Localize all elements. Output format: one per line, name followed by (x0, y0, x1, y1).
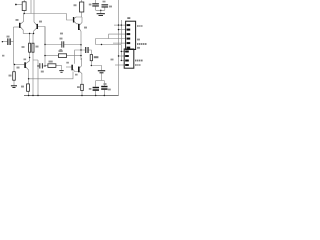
resistor R8 10k (90, 55, 92, 61)
label R10 (59, 50, 63, 52)
resistor R1 (22, 2, 26, 11)
wire bottom bus (24, 95, 119, 97)
capacitor C8 plates (93, 87, 99, 89)
wire T6 collector up (75, 50, 81, 64)
resistor R6 (80, 2, 84, 12)
node emitter join (29, 33, 30, 34)
wire pin5 row (113, 42, 126, 44)
wire C8 leads (95, 81, 97, 96)
label R3 (17, 67, 20, 69)
node T5 collector (29, 57, 30, 58)
terminal dot C1 input (2, 41, 3, 42)
wire C1 left lead (2, 41, 7, 43)
resistor R10 (81, 84, 84, 90)
label +13V (137, 25, 139, 27)
wire T4 emitter rail x81 (80, 29, 81, 60)
connector box lower (124, 49, 134, 68)
label C3 (60, 38, 63, 40)
wire T2 collector diag (34, 22, 37, 25)
label T6 (66, 62, 69, 64)
capacitor C2 plates (38, 63, 41, 68)
pin 8 (125, 55, 129, 57)
label 8R (111, 59, 114, 61)
pin 1 (127, 24, 131, 26)
label INPUT (135, 60, 143, 62)
wire node row y13.5 (24, 13, 66, 15)
wire T2 emitter (34, 28, 37, 33)
transistor T4 base bar (78, 24, 80, 30)
label C8 (89, 88, 92, 90)
wire pin3 row (109, 33, 126, 35)
label +13Vb (135, 64, 137, 66)
wire R7b right to ground (56, 66, 62, 70)
label C9b (108, 89, 111, 91)
label T2 (39, 21, 42, 23)
wire q4 row (115, 64, 124, 66)
capacitor C10 plates (98, 70, 105, 71)
capacitor C3 plates (60, 41, 63, 47)
label R2 (9, 75, 12, 77)
wire T1 base (14, 26, 20, 28)
terminal dot input R1 (15, 4, 17, 6)
ground G1 under R2 (11, 85, 17, 86)
wire C4 top lead (95, 0, 97, 3)
label T1 (16, 19, 19, 21)
pin 6 (127, 47, 131, 49)
label R6 (74, 4, 77, 6)
resistor R3 (29, 43, 31, 52)
transistor T5 base bar (24, 62, 26, 68)
wire T2 base to feedback rail (38, 27, 45, 45)
node C2 right (44, 65, 45, 66)
capacitor C9 plates (101, 86, 107, 88)
wire R3 top lead (29, 34, 31, 44)
wire T3 emitter to T4 base (74, 22, 78, 24)
wire R8 node to C10 (91, 66, 101, 71)
wire C4 bottom lead (95, 7, 97, 11)
resistor R7b horizontal (48, 64, 56, 68)
label R8mid (60, 33, 63, 35)
wire C2 leads (38, 65, 45, 67)
label T5 (24, 59, 27, 61)
wire R6 bottom node y17 (76, 12, 82, 17)
capacitor C4 plates (92, 3, 99, 4)
pin 7 (125, 51, 129, 53)
node C2 left (37, 65, 38, 66)
wire pin2 row (119, 29, 126, 31)
node bus dots (28, 95, 29, 96)
wire R1 left lead (16, 4, 22, 6)
wire rail x31 (30, 0, 32, 14)
wire T7 emitter to R10 (80, 72, 82, 85)
node T4 emitter y44 (80, 44, 81, 45)
capacitor C1 plates (7, 38, 8, 45)
wire cap junction row y80.5 (96, 80, 105, 82)
transistor T3 base bar (73, 17, 74, 23)
label 8V (137, 39, 140, 41)
wire C9 leads (103, 81, 105, 96)
label R4b (22, 46, 25, 48)
wire jog x108.5 (108, 34, 110, 38)
label C1 (7, 36, 10, 38)
label C5 (103, 1, 106, 3)
node T4 emitter y55.6 (80, 55, 81, 56)
node rail x45 y55.6 (44, 55, 45, 56)
wire output row y38 (96, 39, 126, 45)
wire R7b left lead (45, 65, 48, 67)
node T5 base (14, 64, 15, 65)
wire T6 emitter to T7 (73, 69, 78, 71)
wire T5 collector (26, 58, 30, 64)
wire C5 bottom lead (104, 8, 106, 11)
wire R7 leads y55.6 (45, 55, 81, 57)
transistor T2 base bar (37, 24, 39, 29)
wire top lead R1 (23, 0, 25, 2)
label edge-left (2, 55, 4, 57)
node T5 emitter tap (28, 78, 29, 79)
wire R3 bottom lead (29, 52, 31, 57)
wire C1 right lead (11, 41, 14, 43)
wire R4 top lead (32, 34, 34, 44)
wire T5 emitter (26, 67, 29, 84)
pin 2 (127, 29, 131, 31)
wire rail x121.3 upper (120, 20, 122, 44)
capacitor C7 plates (85, 47, 86, 53)
wire T1 emitter (20, 27, 23, 34)
pin 3 (127, 33, 131, 35)
connector J1 box upper (124, 21, 135, 68)
resistor R4 (32, 43, 34, 52)
wire R6 top lead (81, 0, 83, 2)
wire R2 bottom lead (13, 80, 15, 85)
transistor T7 base bar (78, 67, 80, 73)
node R8 bottom (91, 65, 92, 66)
wire T6 base stub (66, 66, 71, 68)
wire T1 collector (20, 14, 23, 25)
ground G2 mid (59, 69, 63, 72)
resistor R5 (27, 84, 30, 91)
capacitor C5 plates (102, 4, 109, 5)
wire T7 collector (80, 58, 82, 68)
label R9 (77, 86, 80, 88)
pin 5 (127, 42, 131, 44)
wire R2 top lead (13, 65, 15, 72)
wire T3 collector diag (74, 17, 76, 19)
wire pin1 row (114, 24, 126, 26)
node rail dots connector (118, 24, 119, 25)
wire T4 collector (80, 17, 82, 25)
wire rail x34 T2 collector (33, 0, 35, 22)
resistor R7 horizontal (58, 54, 66, 58)
wire R10 bottom to bus (81, 91, 83, 96)
wire rail x45 (44, 27, 46, 67)
wire R8 bottom (90, 61, 92, 66)
label 1n (60, 49, 63, 51)
wire q1 row (121, 51, 125, 53)
wire C3 row y44 (45, 44, 81, 46)
wire R1 bottom to node (23, 11, 25, 14)
transistor T1 base bar (19, 23, 21, 28)
wire R5 bottom to bus (28, 91, 30, 95)
node caps top y10.3 (100, 10, 101, 11)
wire C7 row y50 (81, 50, 91, 54)
pin 10 (125, 64, 129, 66)
node output y44 (101, 44, 102, 45)
label T4 (84, 27, 87, 29)
label OUTPUT (137, 43, 147, 45)
wire row y44 to connector (96, 45, 122, 61)
resistor R2 (13, 72, 16, 81)
node A R1 bottom (24, 13, 25, 14)
wire q3 row (121, 60, 124, 62)
pin 9 (125, 60, 129, 62)
wire T3 feed corner (67, 14, 73, 21)
wire T5 base (15, 64, 25, 66)
label C6 (109, 6, 112, 8)
wire cap C2 node vertical x38 (33, 60, 38, 96)
label 10k (94, 56, 99, 58)
transistor T6 base bar (71, 65, 73, 71)
node rail x45 y44 (44, 44, 45, 45)
wire emitter join y33.5 (23, 33, 33, 35)
wire q2 row (119, 55, 126, 57)
label 9V (137, 47, 140, 49)
node T4 emitter y50 (80, 49, 81, 50)
label R12 (49, 61, 53, 63)
ground G3 top caps (97, 13, 105, 14)
label R4 (36, 46, 39, 48)
wire feedback tap y78.8 (29, 72, 73, 79)
wire R4 bottom to bus (32, 52, 34, 95)
label R5 (21, 86, 24, 88)
wire rail x13.5 input node (13, 27, 15, 65)
label C9a (104, 83, 107, 85)
wire C10 stub to cap junction (101, 73, 103, 80)
label C4 (89, 4, 92, 6)
label C2 (41, 71, 44, 73)
wire rail x118.5 (118, 0, 120, 96)
pin 4 (127, 38, 131, 40)
label T7 (75, 74, 78, 76)
label J1 (127, 17, 130, 19)
wire cap gnd row y10.3 (96, 10, 105, 13)
